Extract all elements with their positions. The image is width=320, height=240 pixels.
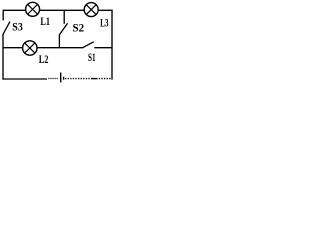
lamp L2	[23, 41, 37, 55]
wire top rail left segment	[3, 9, 25, 11]
wire top rail right segment	[98, 9, 112, 11]
switch S3 blade	[3, 22, 10, 35]
wire bottom dotted segment left of battery	[48, 78, 57, 80]
wire middle rail center segment	[37, 47, 83, 49]
wire bottom dotted segment right end	[99, 78, 112, 80]
lamp L1	[26, 2, 40, 16]
wire centre branch lower segment	[58, 35, 60, 48]
switch S3 upper terminal stub on left wire	[2, 10, 4, 21]
wire right side	[111, 10, 113, 80]
wire left side lower segment	[2, 34, 4, 80]
svg-text:L2: L2	[39, 54, 49, 66]
wire middle rail right segment	[94, 47, 112, 49]
wire middle rail left segment	[3, 47, 23, 49]
switch S1 blade	[83, 42, 94, 48]
svg-text:L3: L3	[100, 17, 109, 29]
svg-text:S3: S3	[12, 21, 23, 33]
svg-text:S2: S2	[73, 22, 85, 34]
battery short plate	[63, 77, 65, 80]
wire bottom dash segment	[91, 78, 98, 80]
svg-text:L1: L1	[40, 16, 50, 28]
wire bottom left solid segment	[3, 78, 47, 80]
svg-text:S1: S1	[88, 52, 96, 64]
lamp L3	[84, 3, 98, 17]
switch S2 upper terminal stub on centre branch	[63, 10, 65, 23]
wire bottom dotted segment right of battery	[65, 78, 90, 80]
wire top rail middle segment	[40, 9, 84, 11]
switch S2 blade	[59, 23, 67, 35]
battery long plate	[60, 73, 62, 83]
